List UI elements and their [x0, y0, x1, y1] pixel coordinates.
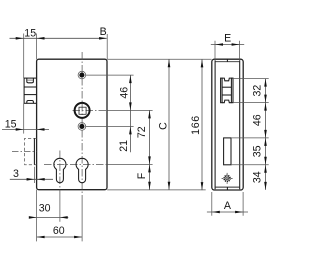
side view top inner line [215, 61, 240, 63]
roller side view left flange [221, 78, 223, 103]
arrow A left [212, 211, 220, 214]
svg-text:A: A [224, 200, 232, 212]
dimension 15 (top) line [10, 37, 107, 39]
roller side view bottom notch [222, 100, 231, 103]
svg-text:32: 32 [252, 85, 264, 97]
svg-text:B: B [100, 26, 107, 38]
dimension 3 line [10, 178, 53, 180]
wire: extension roller bottom y=102.6 [233, 102, 269, 104]
arrow 32 down [264, 95, 267, 103]
svg-text:C: C [157, 122, 169, 130]
wire: extension left cylinder x=59.9 below [59, 190, 61, 222]
side view bottom center tick [226, 187, 228, 190]
dimension 72/F line [149, 110, 151, 189]
wire: extension hole top y=75.1 [86, 74, 134, 76]
wire: extension hub y=110.4 [107, 109, 152, 111]
wire: top extension line x=36.4 (faceplate) [35, 34, 37, 60]
roller (front view) top edge [24, 77, 37, 79]
arrow C up [168, 59, 171, 67]
screw inner ring [226, 177, 229, 180]
fixing hole lower ring [78, 123, 86, 131]
arrow 32 up [264, 79, 267, 87]
svg-text:E: E [224, 33, 231, 45]
wire: E extension left [214, 41, 216, 59]
svg-text:46: 46 [119, 87, 131, 99]
dimension 15 (lower) line [2, 128, 49, 130]
dimension 60 line [37, 236, 83, 238]
hub square [79, 107, 86, 114]
roller bottom tab [27, 101, 34, 104]
wire: top extension line x=107.2 (case right) [106, 34, 108, 59]
arrow 15 left [16, 37, 24, 40]
arrow B right [99, 37, 107, 40]
wire: extension cylinder y=164.4 [107, 163, 152, 165]
wire: extension slot top y=137.9 [231, 137, 269, 139]
screw center dot [227, 178, 228, 179]
roller side view waist line upper [222, 86, 231, 88]
arrow 35 down [264, 157, 267, 165]
roller top tab [27, 78, 34, 83]
lock case front view body [37, 59, 107, 190]
arrow 35 up [264, 138, 267, 146]
side view bottom inner line [215, 186, 240, 188]
dimension C line [168, 59, 170, 190]
wire: extension hole lower y=126.4 [86, 125, 134, 127]
dimension A line [207, 211, 248, 213]
wire: extension case top y=59.2 [107, 58, 211, 60]
arrow E right [232, 43, 240, 46]
arrow E left [215, 43, 223, 46]
svg-text:15: 15 [24, 27, 36, 39]
bolt extended (hidden) dashed outline [25, 138, 37, 164]
fixing hole top ring [78, 71, 86, 79]
arrow 15 lower left [16, 128, 24, 131]
svg-text:35: 35 [252, 145, 264, 157]
bolt centerline [12, 151, 37, 153]
roller waist line lower [24, 94, 36, 96]
dimension chain line right [265, 79, 267, 190]
wire: A extension left [211, 192, 213, 216]
arrow 34 down [264, 182, 267, 190]
arrow 166 up [201, 60, 204, 68]
arrow 72 up [148, 111, 151, 119]
wire: extension case left x=36.6 below [36, 190, 38, 242]
hub circle (square spindle follower) [75, 103, 90, 118]
svg-text:15: 15 [5, 118, 17, 130]
euro cylinder left [54, 158, 66, 182]
side view inner line left [214, 60, 216, 189]
slot in faceplate [224, 138, 231, 165]
side view outer body [212, 59, 243, 190]
wire: top extension line x=23.7 (roller left) [23, 34, 25, 79]
wire: extension case bottom y=189.9 [107, 189, 206, 191]
screw crosshair spikes [222, 173, 233, 184]
wire: extension main centerline x=82.1 below [81, 197, 83, 242]
roller bottom edge [24, 102, 37, 104]
arrow 46s down [264, 130, 267, 138]
centerline vertical x=82.1 (main) [81, 52, 83, 197]
side view inner line right [239, 60, 241, 189]
svg-text:21: 21 [118, 140, 130, 152]
roller side view right flange [231, 78, 233, 103]
arrow 72 down [148, 156, 151, 164]
screw knurled ring [224, 176, 230, 182]
svg-text:46: 46 [252, 114, 264, 126]
dimension 30 line [29, 216, 68, 218]
arrow 30 left [29, 216, 37, 219]
arrow 60 right [74, 236, 82, 239]
wire: extension slot bottom y=164.8 [231, 164, 269, 166]
dimension E line [211, 44, 244, 46]
wire: extension for bolt face x=34.4 [33, 167, 35, 183]
arrow 15 lower right [37, 128, 45, 131]
arrow 15 right / B left [37, 37, 45, 40]
roller left edge [23, 78, 25, 103]
arrow 30 right [60, 216, 68, 219]
dimension 166 line [201, 59, 203, 190]
arrow 60 left [37, 236, 45, 239]
centerline horizontal cylinders y=164.4 [44, 163, 107, 165]
arrow 46 up [129, 75, 132, 83]
svg-text:30: 30 [39, 202, 51, 214]
roller side view top notch [222, 78, 231, 81]
arrow F down [148, 182, 151, 190]
svg-text:72: 72 [136, 126, 148, 138]
arrow 34 up [264, 165, 267, 173]
wire: extension below roller x=23.7 [23, 103, 25, 134]
fixing hole lower (filled) [79, 124, 84, 129]
arrow 21 bottom [129, 127, 132, 135]
arrow 46 down / 21 top [129, 102, 132, 110]
dimension 46/21 shared line [129, 75, 131, 152]
roller top tab inner line [27, 79, 33, 81]
arrow 3 left [27, 178, 35, 181]
wire: E extension right [239, 41, 241, 59]
svg-text:F: F [136, 172, 148, 179]
svg-text:166: 166 [190, 115, 202, 135]
arrow 166 down [201, 182, 204, 190]
side view top center tick [226, 59, 228, 62]
arrow 3 right [37, 178, 45, 181]
euro cylinder right [76, 158, 88, 182]
bolt face solid line [33, 138, 35, 164]
centerline vertical left cylinder x=59.9 [59, 151, 61, 190]
arrow 46s up [264, 103, 267, 111]
wire: extension roller top y=78.6 [233, 78, 269, 80]
centerline horizontal hub y=110.4 [73, 109, 108, 111]
svg-text:3: 3 [13, 168, 19, 180]
wire: A extension right [242, 192, 244, 216]
fixing hole top (filled) [79, 73, 84, 78]
roller side view waist line lower [222, 94, 231, 96]
arrow C down [168, 182, 171, 190]
svg-text:34: 34 [252, 171, 264, 183]
arrow A right [235, 211, 243, 214]
svg-text:60: 60 [53, 225, 65, 237]
arrow F up [148, 165, 151, 173]
roller waist line upper [24, 86, 36, 88]
